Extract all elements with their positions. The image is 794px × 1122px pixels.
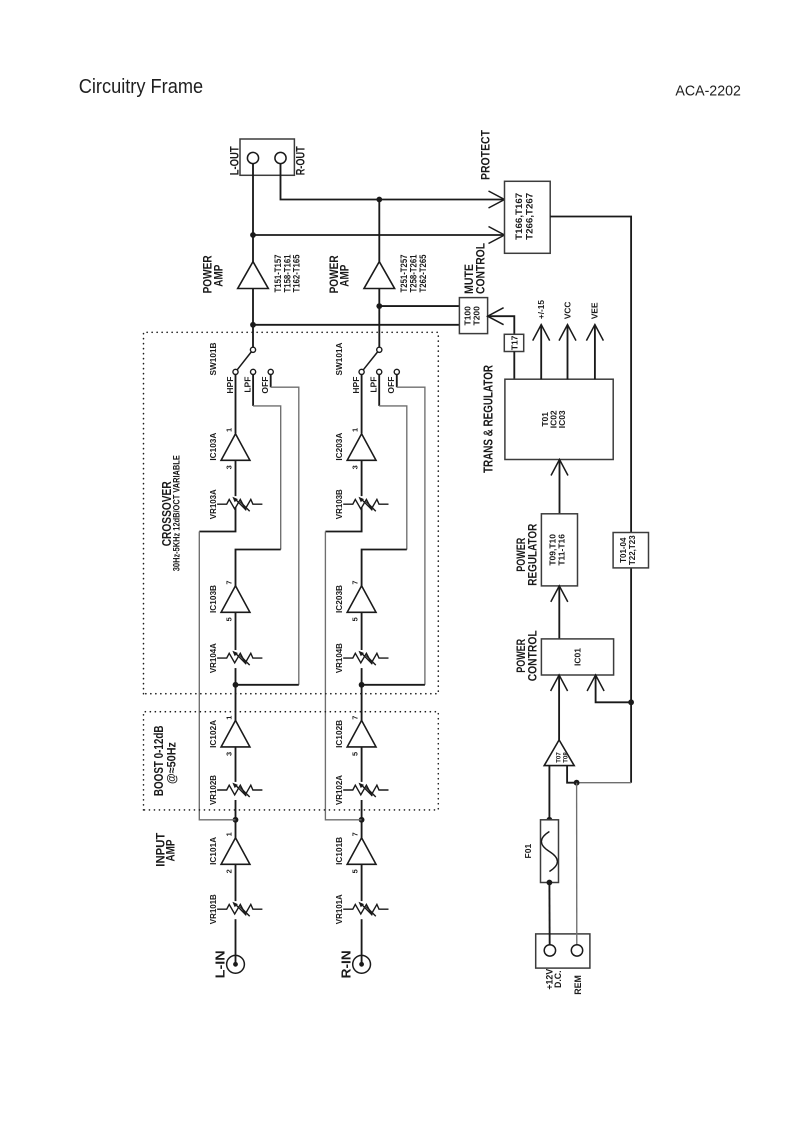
svg-text:AMP: AMP [163,840,177,862]
svg-text:AMP: AMP [211,265,225,287]
junction J1L [233,817,239,823]
svg-text:3: 3 [225,465,234,469]
junction J3R [376,303,382,309]
junction J2R [359,682,365,688]
switch SW101A arm [363,352,377,370]
svg-text:REGULATOR: REGULATOR [525,523,539,585]
wire VR104B to IC203B [361,612,363,650]
wire J4R up and to R-OUT [281,158,380,200]
wire LPF route to IC203B out [362,550,407,587]
op-amp IC103A [221,434,250,461]
op-amp IC103B [221,586,250,613]
transistor pair T07 T08 [544,740,574,766]
svg-text:5: 5 [351,869,360,873]
svg-text:OFF: OFF [260,377,270,394]
crossover section dotted frame [144,332,439,693]
svg-text:7: 7 [351,716,360,720]
wire IC101A out to node J1L [235,820,237,838]
svg-text:T01-04: T01-04 [619,537,628,563]
svg-text:3: 3 [225,752,234,756]
junction remote branch [574,780,580,786]
arrow into PROTECT from L [489,227,505,244]
wire OFF route [397,387,425,685]
wire J4L to PROTECT input [253,234,505,236]
wire VR101B to IC101A [235,864,237,901]
svg-text:VR104A: VR104A [208,643,218,673]
svg-text:ACA-2202: ACA-2202 [675,83,741,99]
wire trans&regulator to T17 [513,352,515,380]
block mute control T100 T200 [459,298,487,334]
block T01-04 T22,T23 [613,533,648,568]
wire T07 T08 to power control [558,675,560,740]
svg-text:T262-T265: T262-T265 [418,255,428,293]
wire power amp R to J4R [378,200,380,262]
power amp R channel [364,262,395,289]
switch SW101A OFF contact [394,369,399,374]
svg-text:+/-15: +/-15 [536,300,546,320]
op-amp IC101B [347,838,376,865]
wire power control to power regulator [558,586,560,639]
potentiometer VR103B [343,497,388,511]
svg-text:7: 7 [225,581,234,585]
svg-text:SW101A: SW101A [334,343,344,376]
potentiometer VR101A [343,902,388,916]
node +12V D.C. terminal [544,945,555,956]
op-amp IC203A [347,434,376,461]
svg-text:CONTROL: CONTROL [474,243,488,294]
svg-text:IC103A: IC103A [208,433,218,461]
svg-text:VR102B: VR102B [208,775,218,805]
svg-text:T17: T17 [510,335,520,350]
svg-text:L-IN: L-IN [213,950,227,978]
svg-text:F01: F01 [523,844,533,859]
svg-text:VCC: VCC [562,302,572,320]
power amp L channel [238,262,269,289]
svg-text:IC102A: IC102A [208,720,218,748]
svg-text:5: 5 [351,617,360,621]
wire VR102B to IC102A [235,747,237,782]
arrow into trans&regulator [551,460,568,476]
wire PROTECT to remote corner [550,217,631,783]
svg-text:SW101B: SW101B [208,343,218,376]
svg-text:CONTROL: CONTROL [525,630,539,681]
wire J1L to VR102B [235,800,237,820]
block POWER REGULATOR T09,T10 T11-T16 [541,514,577,586]
svg-text:R-IN: R-IN [339,950,353,978]
wire supply output +/-15 [540,325,542,380]
junction J2L [233,682,239,688]
svg-text:REM: REM [573,975,583,995]
wire L-IN to VR101B [235,919,237,964]
wire LPF route [379,406,407,550]
svg-text:AMP: AMP [338,265,352,287]
wire corner to remote junction [577,782,632,784]
wire supply output VCC [567,325,569,380]
wire VR103B low end to feedback [325,507,361,531]
switch SW101B arm [237,352,251,370]
wire IC102B out to node J2R [361,685,363,721]
svg-text:IC03: IC03 [557,410,567,428]
svg-text:2: 2 [225,869,234,873]
connector block L-OUT R-OUT [240,139,294,175]
svg-text:LPF: LPF [243,377,253,393]
svg-text:1: 1 [225,716,234,720]
svg-text:VR102A: VR102A [334,775,344,805]
svg-text:IC102B: IC102B [334,720,344,748]
wire OFF contact stub [270,375,272,388]
switch SW101B OFF contact [268,369,273,374]
wire LPF contact stub [252,375,254,406]
wire supply output VEE [594,325,596,380]
svg-text:IC203B: IC203B [334,585,344,613]
switch SW101A HPF contact [359,369,364,374]
junction fuse right [547,817,553,823]
block PROTECT T166,T167 T266,T267 [505,181,551,253]
wire J2R to VR104B [361,668,363,685]
wire LPF route [253,406,281,550]
arrow into PROTECT from R [489,191,505,208]
arrow VCC [559,325,576,341]
svg-text:30Hz-5KHz 12dB/OCT VARIABLE: 30Hz-5KHz 12dB/OCT VARIABLE [172,455,182,571]
wire fuse to T07 T08 [548,766,550,820]
junction J3L [250,322,256,328]
wire VR102A to IC102B [361,747,363,782]
wire IC103A out to HPF contact [235,375,237,434]
wire OFF route [271,387,299,685]
svg-text:T22,T23: T22,T23 [628,535,637,565]
wire LPF contact stub [378,375,380,406]
svg-text:VR104B: VR104B [334,643,344,673]
wire J4R to PROTECT input [379,199,504,201]
svg-text:R-OUT: R-OUT [293,146,307,176]
node L-IN input jack [213,950,244,978]
arrow into power control main [551,675,568,691]
potentiometer VR102A [343,783,388,797]
svg-text:5: 5 [351,752,360,756]
svg-text:T162-T165: T162-T165 [292,255,302,293]
svg-text:T07: T07 [556,752,563,763]
svg-text:@≈50Hz: @≈50Hz [166,742,178,784]
arrow into power regulator [551,586,568,602]
svg-text:5: 5 [225,617,234,621]
svg-text:3: 3 [351,465,360,469]
potentiometer VR101B [217,902,262,916]
svg-text:T200: T200 [472,306,482,326]
svg-text:T11-T16: T11-T16 [556,534,566,566]
wire VR103A low end to feedback [199,507,235,531]
arrow +/-15 [533,325,550,341]
wire IC102A out to node J2L [235,685,237,721]
potentiometer VR104A [217,651,262,665]
wire pivot feed from J3L [252,325,254,347]
connector block +12V D.C. REM [536,934,590,968]
wire OFF route to J2L [236,684,299,686]
wire J2L to VR104A [235,668,237,685]
svg-text:IC101A: IC101A [208,837,218,865]
block TRANS & REGULATOR T01 IC02 IC03 [505,379,613,459]
node R-OUT jack [275,152,286,163]
wire remote line [576,783,578,951]
wire OFF route to J2R [362,684,425,686]
potentiometer VR104B [343,651,388,665]
switch SW101B pivot [250,347,255,352]
wire VR103B to IC203A [361,460,363,496]
wire J4L to L-OUT [252,158,254,235]
svg-text:IC103B: IC103B [208,585,218,613]
arrow VEE [586,325,603,341]
svg-text:HPF: HPF [351,377,361,394]
svg-text:OFF: OFF [386,377,396,394]
op-amp IC102B [347,720,376,747]
svg-text:1: 1 [225,428,234,432]
wire IC101B out to node J1R [361,820,363,838]
svg-text:LPF: LPF [369,377,379,393]
svg-text:IC101B: IC101B [334,837,344,865]
switch SW101A pivot [377,347,382,352]
arrow into mute control box [488,308,504,325]
wire VR103A to IC103A [235,460,237,496]
svg-text:1: 1 [351,428,360,432]
junction J4R [376,197,382,203]
wire sense branch to power control [596,675,632,702]
wire power amp L to J4L [252,235,254,262]
potentiometer VR102B [217,783,262,797]
wire OFF contact stub [396,375,398,388]
wire VR101A to IC101B [361,864,363,901]
wire J3R to mute control box [379,305,459,307]
wire feedback return to J1L [199,532,235,820]
svg-text:7: 7 [351,832,360,836]
svg-text:D.C.: D.C. [553,970,563,988]
block T17 [504,334,523,351]
svg-text:Circuitry Frame: Circuitry Frame [79,76,204,98]
wire T17 to mute control [488,316,515,334]
potentiometer VR103A [217,497,262,511]
wire remote junction to T07 T08 base [567,766,577,783]
wire IC203A out to HPF contact [361,375,363,434]
wire J1R to VR102A [361,800,363,820]
svg-text:T266,T267: T266,T267 [524,193,534,240]
switch SW101A LPF contact [377,369,382,374]
wire J3L to mute control box [253,324,459,326]
boost section dotted frame [144,712,439,810]
svg-text:TRANS & REGULATOR: TRANS & REGULATOR [481,365,495,473]
wire +12V to fuse [548,883,550,951]
svg-text:IC203A: IC203A [334,433,344,461]
svg-text:BOOST 0-12dB: BOOST 0-12dB [151,726,166,797]
block POWER CONTROL IC01 [541,639,613,675]
junction J1R [359,817,365,823]
wire LPF route to IC103B out [236,550,281,587]
wire feedback return to J1R [325,532,361,820]
svg-text:VR103B: VR103B [334,489,344,519]
svg-text:1: 1 [225,832,234,836]
svg-text:VEE: VEE [590,302,600,319]
switch SW101B LPF contact [251,369,256,374]
svg-text:VR101A: VR101A [334,894,344,924]
wire J3L to power amp [252,289,254,325]
node L-OUT jack [247,152,258,163]
svg-text:HPF: HPF [225,377,235,394]
svg-text:T166,T167: T166,T167 [514,193,524,240]
wire power regulator to trans&regulator [559,460,561,514]
wire VR104A to IC103B [235,612,237,650]
svg-text:IC01: IC01 [573,648,583,666]
svg-text:T08: T08 [563,752,570,763]
fuse F01 [541,820,559,883]
wire R-IN to VR101A [361,919,363,964]
node R-IN input jack [339,950,370,978]
op-amp IC102A [221,720,250,747]
svg-text:7: 7 [351,581,360,585]
wire pivot feed from J3R [378,306,380,347]
junction sense branch [628,699,634,705]
arrow into power control sense [587,675,604,691]
op-amp IC203B [347,586,376,613]
wire J3R to power amp [378,289,380,307]
svg-text:PROTECT: PROTECT [479,129,493,180]
svg-text:VR103A: VR103A [208,489,218,519]
junction fuse left [547,880,553,886]
svg-text:VR101B: VR101B [208,894,218,924]
node REM terminal [571,945,582,956]
switch SW101B HPF contact [233,369,238,374]
svg-text:L-OUT: L-OUT [227,146,241,176]
op-amp IC101A [221,838,250,865]
junction J4L [250,232,256,238]
